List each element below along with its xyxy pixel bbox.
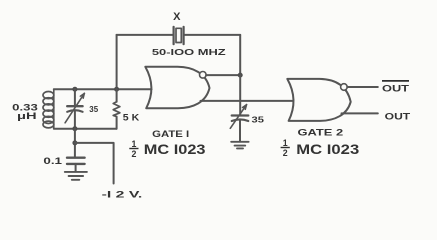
svg-text:0.1: 0.1	[43, 156, 62, 166]
wire: crystal branch vertical left	[116, 35, 118, 89]
wire: crystal top right segment	[184, 34, 241, 36]
label OUT-bar overline	[382, 80, 409, 82]
svg-text:35: 35	[252, 114, 265, 124]
svg-text:GATE I: GATE I	[152, 129, 189, 139]
node: junction dot crystal branch on rail	[114, 87, 119, 92]
svg-text:X: X	[173, 11, 181, 23]
wire: 0.1 branch vertical	[74, 129, 76, 158]
wire: top rail (tank to gate 1 input)	[54, 88, 152, 90]
svg-text:OUT: OUT	[382, 82, 409, 93]
svg-text:1: 1	[283, 138, 288, 148]
wire: bottom rail	[54, 128, 117, 130]
svg-text:MC I023: MC I023	[296, 142, 359, 157]
wire: gate1 NOR output to junction	[206, 74, 240, 76]
ground: below C3	[65, 172, 87, 180]
gate 1 output bubble	[200, 72, 207, 79]
wire: tee to -1.2V	[75, 143, 114, 184]
capacitor C3 0.1	[67, 158, 85, 172]
svg-text:2: 2	[131, 149, 136, 159]
svg-text:-I 2 V.: -I 2 V.	[102, 189, 143, 200]
resistor R1 5K	[113, 89, 120, 129]
svg-text:5 K: 5 K	[123, 113, 140, 123]
wire: gate2 OR output stub	[342, 112, 378, 114]
gate 2 output bubble	[341, 84, 348, 91]
node: junction dot feedback	[238, 73, 243, 78]
wire: junction down to trimmer C2	[239, 75, 241, 115]
label 1/2 MC1023 gate1	[129, 139, 206, 159]
wire: gate2 NOR output stub	[347, 86, 378, 88]
node: junction dot -1.2V tee	[72, 140, 77, 145]
svg-text:50-IOO MHZ: 50-IOO MHZ	[152, 47, 226, 57]
capacitor C1 35 (variable)	[65, 89, 84, 129]
svg-text:35: 35	[89, 104, 98, 114]
label 1/2 MC1023 gate2	[281, 138, 360, 158]
svg-text:1: 1	[131, 139, 136, 149]
node: junction dot trimmer C1 bottom	[72, 126, 77, 131]
svg-text:μH: μH	[17, 111, 37, 121]
wire: crystal top left segment	[117, 34, 173, 36]
svg-text:2: 2	[283, 148, 288, 158]
crystal X1	[174, 27, 184, 44]
gate 1 NOR body	[145, 67, 209, 109]
wire: feedback right vertical	[239, 35, 241, 75]
svg-text:MC I023: MC I023	[144, 142, 206, 157]
gate 2 NOR body	[287, 79, 350, 121]
svg-text:GATE 2: GATE 2	[298, 128, 344, 138]
ground: below C2	[231, 142, 248, 149]
wire: gate1 OR output to gate2 input	[201, 100, 294, 102]
svg-text:OUT: OUT	[385, 110, 411, 121]
capacitor C2 35 (variable)	[230, 105, 248, 142]
node: junction dot trimmer C1 top	[72, 87, 77, 92]
inductor L1 0.33uH	[43, 89, 54, 129]
